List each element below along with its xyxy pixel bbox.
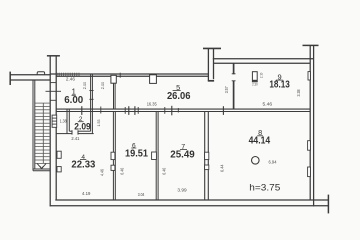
svg-text:2.10: 2.10	[259, 73, 263, 79]
partition room4/6	[112, 111, 114, 200]
room2 box bottom	[69, 130, 72, 132]
vestibule right wall upper	[233, 63, 235, 74]
svg-text:2.44: 2.44	[100, 82, 105, 90]
right wall outer line	[313, 45, 315, 206]
svg-text:22.33: 22.33	[71, 159, 96, 170]
vestibule door jambs	[232, 73, 236, 75]
svg-text:2.44: 2.44	[82, 82, 87, 90]
partition room7/8	[204, 111, 206, 200]
room2 box left wall	[56, 109, 93, 135]
partition room6/7	[155, 111, 157, 200]
svg-text:4.19: 4.19	[82, 191, 91, 196]
top wall window stripe band	[57, 73, 81, 76]
vestibule left wall outer	[207, 48, 209, 81]
svg-text:6.44: 6.44	[220, 164, 225, 172]
svg-text:6.94: 6.94	[269, 160, 278, 165]
vestibule left wall foot	[208, 80, 214, 82]
room1/room2 shared wall	[90, 74, 92, 131]
svg-text:16.35: 16.35	[147, 101, 158, 106]
door jambs room7/8	[205, 152, 209, 159]
room1 door ticks	[89, 90, 93, 92]
svg-text:2.09: 2.09	[74, 122, 91, 133]
stairwell left wall	[32, 80, 34, 171]
bottom wall right end bar	[327, 195, 329, 214]
bottom wall outer line	[50, 205, 329, 207]
door jambs room6/7	[152, 152, 157, 160]
vestibule left wall inner	[213, 48, 215, 79]
svg-text:5.46: 5.46	[263, 102, 273, 107]
svg-text:3.38: 3.38	[296, 89, 301, 97]
window radiator room 8 upper	[308, 141, 311, 151]
chimney 2 cap	[303, 44, 319, 46]
svg-text:6.46: 6.46	[120, 167, 125, 175]
main interior wall upper line	[56, 108, 310, 110]
top wall niche	[150, 75, 157, 84]
stair direction arrow	[37, 164, 46, 169]
niche rect room5 left	[111, 75, 116, 83]
left wing end bar	[9, 72, 11, 85]
top wall inner line (right section)	[214, 62, 311, 64]
svg-text:4.46: 4.46	[100, 168, 105, 176]
main wall joint ticks	[82, 106, 224, 116]
wing flue bump	[37, 72, 44, 75]
top wall outer line (right section)	[213, 58, 314, 60]
svg-text:1.38: 1.38	[60, 119, 68, 124]
svg-text:44.14: 44.14	[249, 136, 271, 147]
vestibule right wall lower	[233, 81, 235, 109]
svg-text:26.06: 26.06	[167, 91, 191, 102]
svg-text:3.99: 3.99	[177, 188, 187, 193]
svg-text:h=3.75: h=3.75	[249, 182, 280, 192]
left wall ladder door	[52, 115, 57, 127]
door jambs room4 left wall	[57, 151, 61, 158]
appliance rect room 9	[252, 72, 257, 82]
chimney 1 cap	[47, 55, 60, 57]
svg-text:1.53: 1.53	[96, 119, 101, 127]
bottom wall inner line	[55, 199, 328, 201]
top wall outer line (mid section)	[50, 73, 208, 75]
svg-text:3.57: 3.57	[224, 86, 229, 94]
chimney over vestibule cap	[203, 47, 221, 49]
left wing wall top line	[10, 74, 51, 76]
svg-text:2.41: 2.41	[71, 136, 80, 141]
circle column room 8	[252, 157, 260, 165]
stair stringer	[42, 103, 44, 163]
left wing wall bottom line	[10, 79, 51, 81]
top wall tick x120	[119, 73, 121, 78]
svg-text:3.04: 3.04	[138, 192, 145, 197]
svg-text:6.46: 6.46	[162, 167, 167, 175]
stair treads	[35, 103, 50, 163]
window radiator room 9	[308, 72, 310, 80]
svg-text:19.51: 19.51	[125, 148, 148, 159]
stairwell bottom	[33, 168, 50, 170]
left wall joint tick	[46, 90, 62, 92]
svg-text:25.49: 25.49	[170, 149, 195, 160]
window radiator room 8 lower	[308, 167, 311, 177]
partition room5 left wall	[113, 83, 115, 109]
main interior wall lower line	[56, 111, 310, 113]
svg-text:2.46: 2.46	[66, 76, 76, 81]
left wall inner line	[55, 56, 57, 200]
svg-text:6.00: 6.00	[64, 95, 83, 106]
room2 door jamb ticks	[71, 130, 73, 134]
door jambs room4/6	[111, 152, 115, 159]
svg-text:2.30: 2.30	[252, 83, 258, 87]
top wall inner line (mid section)	[56, 75, 208, 77]
left wall outer line	[49, 56, 51, 207]
right wall inner line	[309, 45, 311, 200]
svg-text:18.13: 18.13	[269, 79, 290, 90]
